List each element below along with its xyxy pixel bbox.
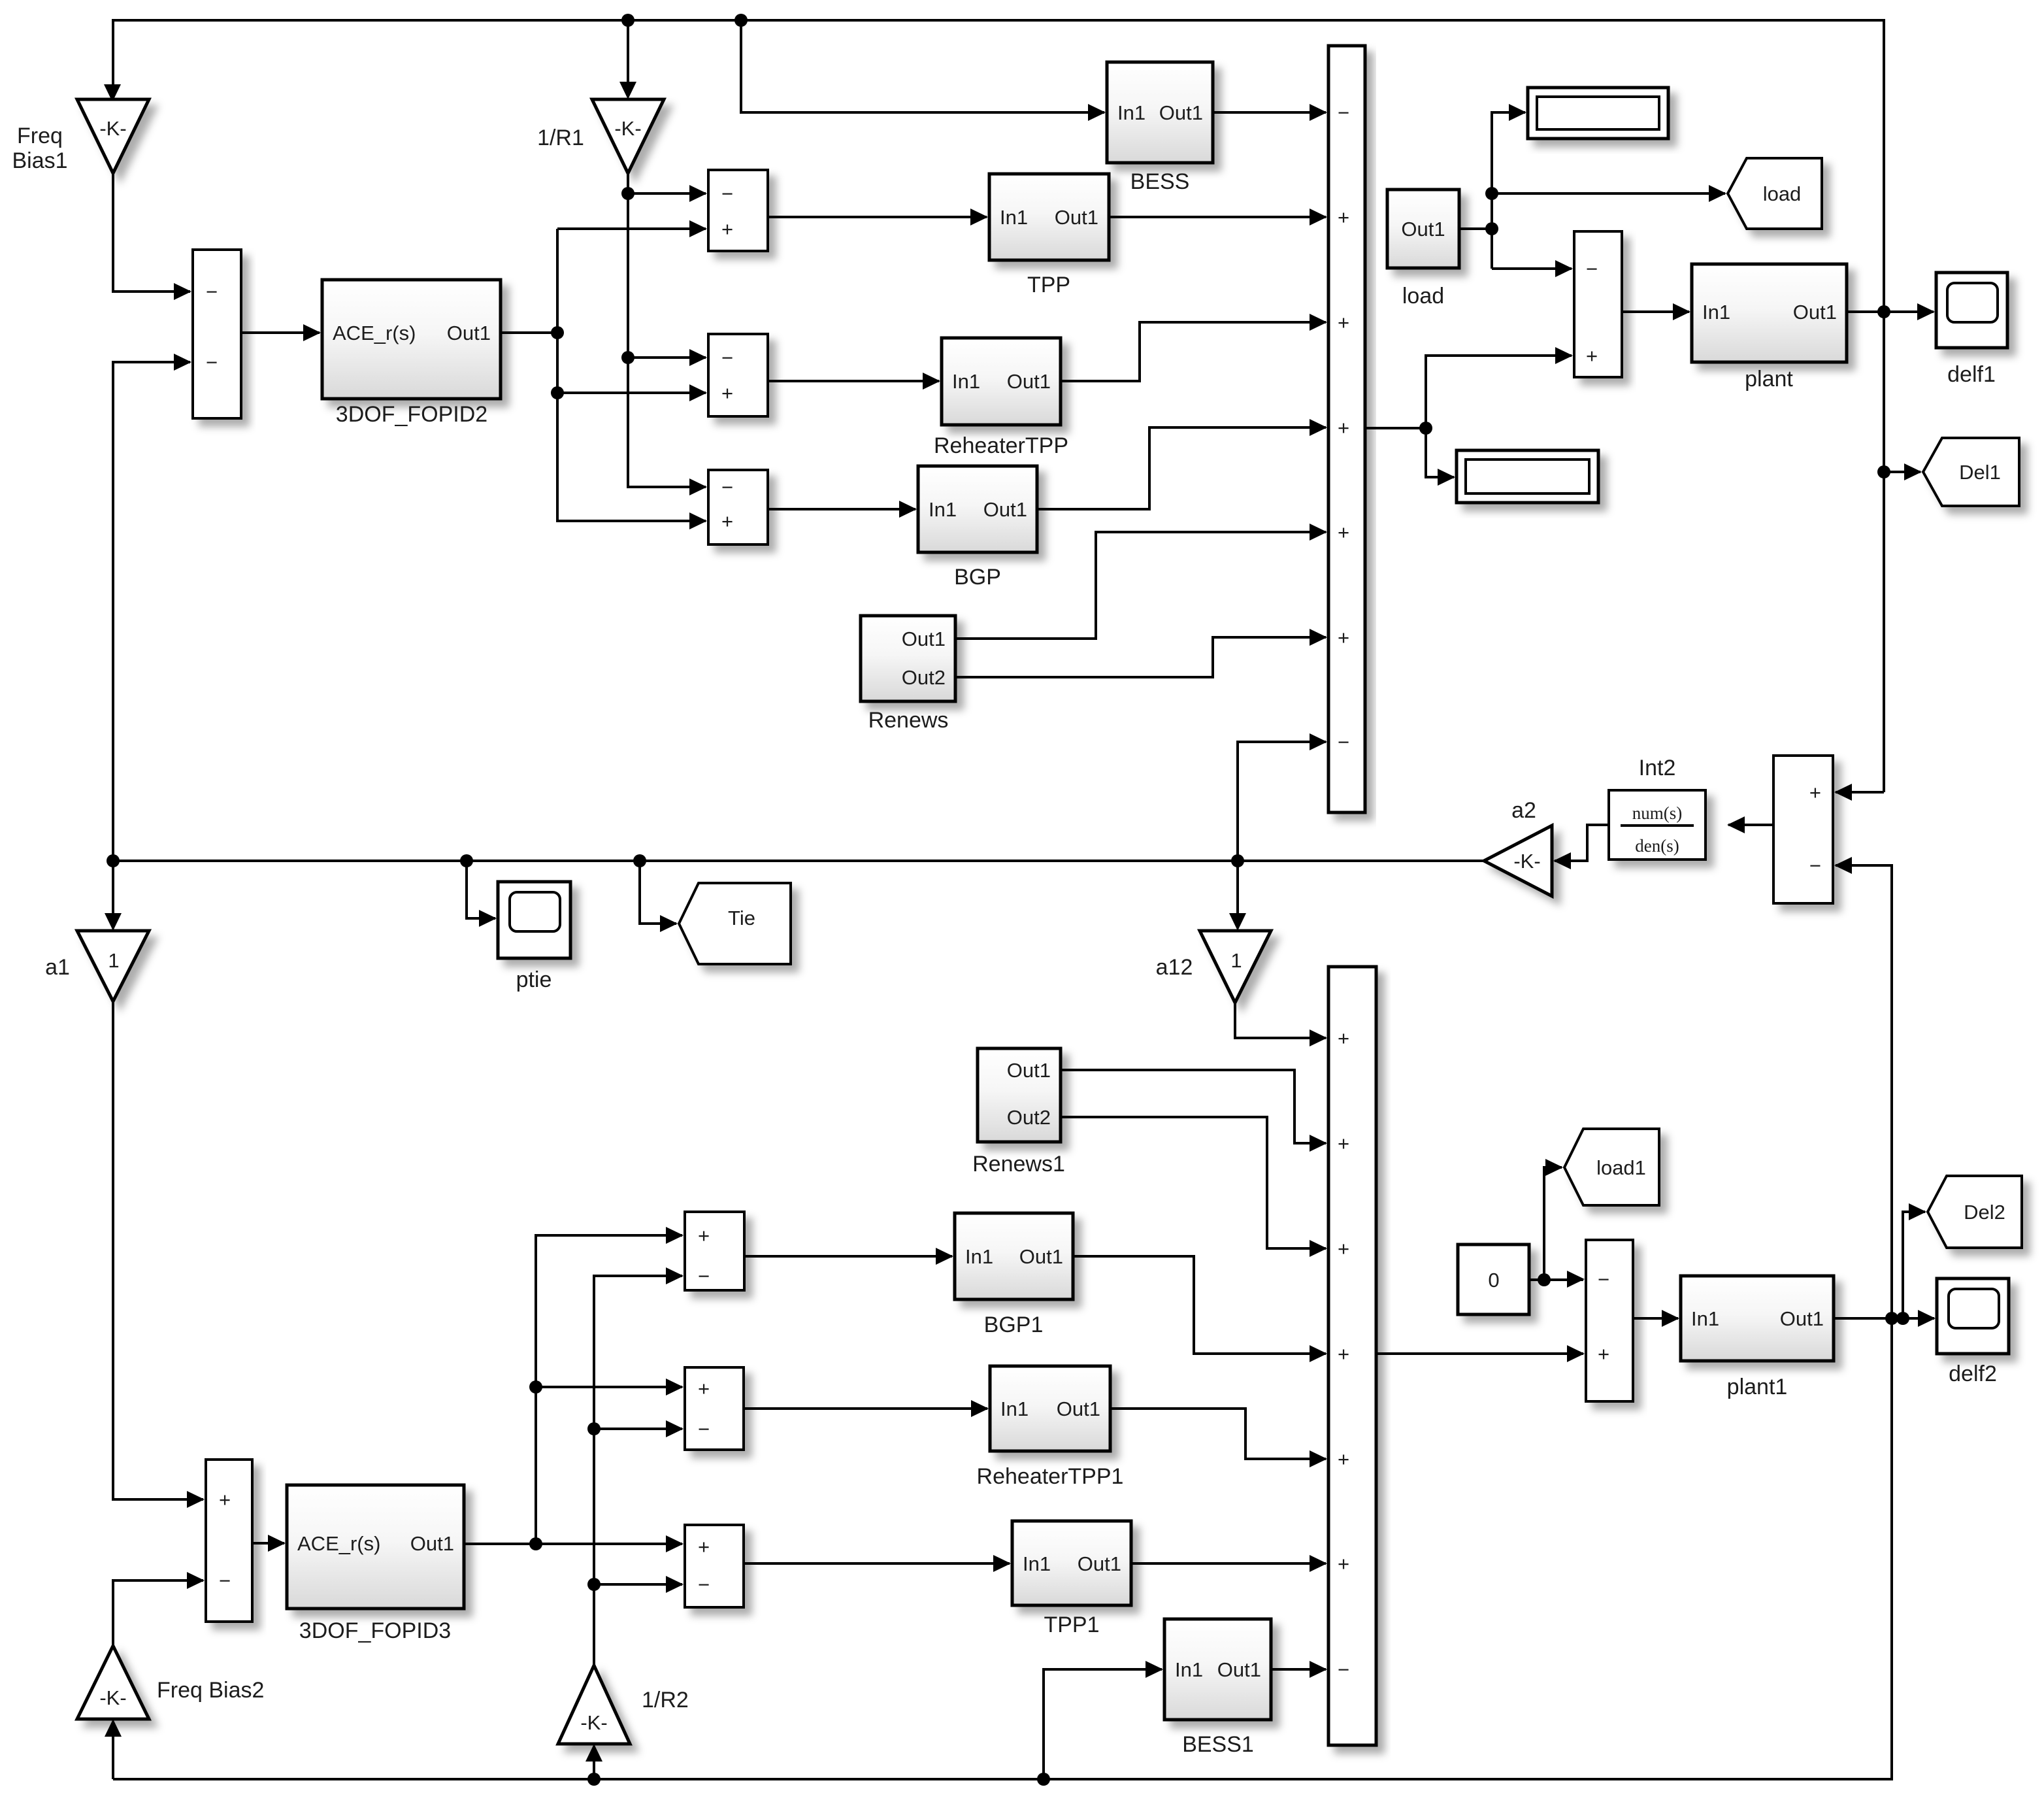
- svg-text:In1: In1: [929, 498, 957, 521]
- svg-text:plant1: plant1: [1727, 1375, 1788, 1399]
- svg-text:ACE_r(s): ACE_r(s): [333, 322, 416, 344]
- svg-text:In1: In1: [1117, 101, 1146, 124]
- svg-text:3DOF_FOPID2: 3DOF_FOPID2: [336, 402, 487, 427]
- svg-text:+: +: [1338, 1448, 1349, 1471]
- svg-text:In1: In1: [1175, 1658, 1203, 1681]
- wire mux M1 output: [1365, 347, 1573, 486]
- svg-text:Out1: Out1: [1007, 1059, 1051, 1082]
- goto tag Del2: [1928, 1176, 2022, 1248]
- svg-text:1: 1: [1230, 949, 1242, 972]
- source Renews1: [972, 1048, 1065, 1177]
- gain Freq Bias1: [12, 84, 149, 173]
- sum S3 (ReheaterTPP sum): [708, 334, 768, 416]
- gain a12: [1156, 931, 1271, 1003]
- svg-text:Out1: Out1: [1780, 1307, 1824, 1330]
- wire sum S2 to TPP: [768, 209, 988, 225]
- svg-text:+: +: [698, 1535, 710, 1558]
- svg-text:load: load: [1763, 182, 1802, 205]
- svg-text:Out2: Out2: [902, 666, 946, 689]
- wire sum S1 to 3DOF_FOPID2: [241, 324, 321, 341]
- svg-text:num(s): num(s): [1632, 803, 1683, 823]
- wire plant Out1 to delf1: [1847, 303, 1935, 320]
- wire sum S8 to BGP1: [744, 1248, 953, 1265]
- sum S10 (TPP1 sum): [685, 1525, 744, 1607]
- svg-text:BGP: BGP: [954, 565, 1001, 590]
- svg-text:ReheaterTPP: ReheaterTPP: [934, 433, 1068, 458]
- svg-text:−: −: [1338, 731, 1349, 754]
- sum S11 (plant1 sum): [1586, 1240, 1633, 1401]
- display D2 (area1 lower): [1457, 450, 1598, 503]
- svg-text:−: −: [206, 351, 218, 374]
- wire sum S7 to 3DOF_FOPID3: [252, 1535, 286, 1552]
- subsystem BESS: [1107, 62, 1213, 194]
- wire sum S11 to plant1: [1633, 1310, 1679, 1327]
- transfer function Int2: [1609, 756, 1706, 860]
- wire BESS1 to mux: [1271, 1661, 1327, 1678]
- svg-text:load1: load1: [1596, 1156, 1646, 1179]
- svg-text:ptie: ptie: [516, 967, 552, 992]
- svg-text:In1: In1: [952, 370, 980, 393]
- wire Renews Out2 to mux: [955, 629, 1327, 677]
- svg-text:−: −: [1598, 1268, 1609, 1291]
- svg-text:load: load: [1402, 284, 1444, 309]
- subsystem plant1: [1681, 1276, 1834, 1399]
- svg-text:−: −: [206, 280, 218, 303]
- svg-text:−: −: [698, 1265, 710, 1288]
- wire constant 0 rail: [1529, 1159, 1585, 1288]
- svg-text:In1: In1: [1691, 1307, 1719, 1330]
- wire tie to gain a1: [105, 861, 122, 931]
- svg-text:In1: In1: [965, 1245, 993, 1268]
- svg-text:+: +: [1338, 1237, 1349, 1260]
- subsystem BGP: [918, 466, 1037, 590]
- wire to goto Del2: [1903, 1203, 1926, 1318]
- goto tag load1: [1564, 1129, 1659, 1205]
- svg-text:+: +: [698, 1377, 710, 1400]
- svg-text:1/R1: 1/R1: [537, 125, 584, 150]
- wire area1 frequency feedback top: [113, 14, 1884, 792]
- svg-text:1/R2: 1/R2: [642, 1688, 689, 1712]
- subsystem 3DOF_FOPID2: [322, 280, 501, 427]
- wire load out rail: [1459, 104, 1726, 277]
- svg-text:-K-: -K-: [1513, 850, 1540, 873]
- svg-text:a12: a12: [1156, 955, 1193, 980]
- scope delf2: [1937, 1278, 2009, 1386]
- wire 3DOF_FOPID2 output rail: [501, 220, 707, 529]
- source load (area1): [1387, 190, 1459, 309]
- svg-text:Out2: Out2: [1007, 1106, 1051, 1129]
- goto tag Tie: [679, 883, 791, 964]
- wire bottom to BESS1: [1044, 1661, 1163, 1779]
- svg-text:−: −: [721, 476, 733, 499]
- sum S6 (Int2 sum): [1773, 756, 1833, 903]
- sum S1 (ACE1 sum): [193, 250, 241, 418]
- svg-text:Out1: Out1: [1401, 218, 1445, 241]
- svg-text:ACE_r(s): ACE_r(s): [297, 1532, 380, 1555]
- subsystem ReheaterTPP1: [977, 1366, 1124, 1489]
- svg-text:TPP1: TPP1: [1044, 1612, 1099, 1637]
- svg-text:0: 0: [1488, 1269, 1499, 1292]
- svg-text:+: +: [1338, 1552, 1349, 1575]
- wire 1/R1 output rail: [621, 173, 707, 495]
- svg-text:+: +: [698, 1224, 710, 1247]
- svg-text:−: −: [721, 182, 733, 205]
- svg-text:+: +: [721, 382, 733, 405]
- sum S5 (plant sum): [1574, 231, 1622, 377]
- svg-text:+: +: [1338, 206, 1349, 229]
- source Renews: [861, 616, 955, 733]
- goto tag Del1: [1923, 438, 2019, 506]
- wire tie line: [107, 854, 1484, 867]
- gain a1: [45, 931, 149, 1001]
- svg-text:1: 1: [108, 949, 119, 972]
- svg-text:−: −: [219, 1569, 231, 1592]
- svg-text:−: −: [1338, 1658, 1349, 1681]
- wire sum S10 to TPP1: [744, 1555, 1011, 1572]
- gain 1/R2: [558, 1665, 689, 1744]
- svg-text:Out1: Out1: [1078, 1552, 1121, 1575]
- svg-text:+: +: [1338, 1027, 1349, 1050]
- wire Renews Out1 to mux: [955, 524, 1327, 639]
- svg-text:In1: In1: [1023, 1552, 1051, 1575]
- gain 1/R1: [537, 99, 664, 173]
- wire Int2 to gain a2: [1553, 825, 1609, 869]
- svg-text:TPP: TPP: [1027, 273, 1070, 297]
- wire Int2 sum to Int2: [1727, 816, 1773, 833]
- sum S4 (BGP sum): [708, 470, 768, 544]
- svg-text:In1: In1: [1000, 1397, 1029, 1420]
- wire bottom to Freq Bias2: [105, 1719, 122, 1779]
- svg-text:Out1: Out1: [1057, 1397, 1100, 1420]
- wire to goto Del1: [1877, 463, 1922, 480]
- wire TPP1 to mux: [1131, 1555, 1327, 1572]
- wire a1 to sum S7 plus: [113, 1001, 205, 1508]
- subsystem TPP: [989, 174, 1109, 297]
- svg-text:+: +: [219, 1488, 231, 1511]
- svg-text:Freq Bias2: Freq Bias2: [157, 1678, 264, 1703]
- svg-text:Renews: Renews: [868, 708, 949, 733]
- wire ReheaterTPP1 to mux: [1110, 1409, 1327, 1467]
- svg-text:Del1: Del1: [1959, 461, 2001, 484]
- svg-text:Out1: Out1: [1793, 301, 1837, 324]
- goto tag load: [1728, 158, 1822, 229]
- svg-text:In1: In1: [1702, 301, 1730, 324]
- wire tie-line to sum input 2: [113, 354, 191, 858]
- wire Renews1 Out2 to mux: [1061, 1117, 1327, 1257]
- svg-text:Bias1: Bias1: [12, 148, 67, 173]
- wire area2 rail to Int2 sum minus: [1834, 857, 1892, 1318]
- svg-text:BESS: BESS: [1130, 169, 1190, 194]
- wire plant1 Out1 to delf2: [1834, 1310, 1936, 1327]
- wire tie to gain a12: [1229, 861, 1246, 931]
- sum S8 (BGP1 sum): [685, 1212, 744, 1290]
- subsystem TPP1: [1012, 1521, 1131, 1637]
- svg-text:+: +: [721, 218, 733, 241]
- svg-text:+: +: [1338, 311, 1349, 334]
- wire 1/R2 output rail: [587, 1267, 684, 1665]
- svg-text:-K-: -K-: [614, 117, 641, 140]
- svg-text:−: −: [698, 1573, 710, 1596]
- subsystem plant: [1692, 264, 1847, 392]
- svg-text:Out1: Out1: [447, 322, 491, 344]
- svg-text:+: +: [1338, 416, 1349, 439]
- display D1 (area1 upper): [1528, 88, 1668, 139]
- svg-text:Freq: Freq: [17, 124, 63, 148]
- wire mux M2 output to plant1 sum: [1376, 1345, 1585, 1362]
- svg-text:−: −: [1586, 258, 1598, 280]
- svg-text:den(s): den(s): [1635, 836, 1679, 856]
- svg-text:BESS1: BESS1: [1182, 1732, 1254, 1757]
- wire top to gain 1/R1: [619, 20, 636, 99]
- svg-text:Out1: Out1: [1019, 1245, 1063, 1268]
- svg-text:+: +: [721, 510, 733, 533]
- svg-text:ReheaterTPP1: ReheaterTPP1: [977, 1464, 1124, 1489]
- svg-text:delf1: delf1: [1947, 362, 1996, 387]
- svg-text:+: +: [1338, 521, 1349, 544]
- subsystem BESS1: [1164, 1619, 1271, 1757]
- svg-text:+: +: [1338, 626, 1349, 649]
- scope ptie: [498, 882, 570, 992]
- sum S2 (TPP sum): [708, 170, 768, 251]
- svg-text:Out1: Out1: [1217, 1658, 1261, 1681]
- wire Freq Bias1 to sum: [113, 173, 191, 300]
- wire BESS to mux: [1213, 104, 1327, 121]
- svg-text:BGP1: BGP1: [984, 1312, 1044, 1337]
- wire sum S9 to ReheaterTPP1: [744, 1400, 989, 1417]
- svg-text:−: −: [1338, 101, 1349, 124]
- subsystem BGP1: [955, 1213, 1073, 1337]
- svg-text:+: +: [1598, 1343, 1609, 1365]
- wire tie-line to mux minus: [1238, 733, 1327, 858]
- gain Freq Bias2: [77, 1646, 264, 1719]
- subsystem 3DOF_FOPID3: [287, 1485, 464, 1643]
- svg-text:+: +: [1338, 1132, 1349, 1155]
- svg-text:Out1: Out1: [902, 627, 946, 650]
- wire bottom to 1/R2: [585, 1744, 602, 1779]
- svg-text:a1: a1: [45, 955, 70, 980]
- svg-text:−: −: [721, 346, 733, 369]
- wire BGP to mux: [1037, 419, 1327, 509]
- svg-text:Renews1: Renews1: [972, 1152, 1065, 1177]
- wire TPP to mux: [1109, 209, 1327, 225]
- svg-text:delf2: delf2: [1949, 1361, 1997, 1386]
- wire tie to scope ptie: [467, 861, 497, 927]
- wire Renews1 Out1 to mux: [1061, 1070, 1327, 1152]
- svg-text:+: +: [1586, 344, 1598, 367]
- svg-text:Del2: Del2: [1964, 1201, 2005, 1224]
- svg-text:Out1: Out1: [1159, 101, 1203, 124]
- svg-text:Out1: Out1: [983, 498, 1027, 521]
- sum S9 (ReheaterTPP1 sum): [685, 1367, 744, 1450]
- wire tie to goto Tie: [640, 861, 678, 932]
- svg-text:Tie: Tie: [728, 907, 755, 929]
- svg-text:Int2: Int2: [1639, 756, 1676, 780]
- subsystem ReheaterTPP: [934, 338, 1068, 458]
- wire sum S5 to plant: [1622, 303, 1690, 320]
- wire sum S4 to BGP: [768, 501, 917, 518]
- svg-text:+: +: [1338, 1343, 1349, 1365]
- wire sum S3 to ReheaterTPP: [768, 373, 940, 390]
- constant 0: [1458, 1244, 1529, 1314]
- svg-text:In1: In1: [1000, 206, 1028, 229]
- wire Freq Bias2 to sum S7 minus: [113, 1572, 205, 1646]
- svg-text:Out1: Out1: [1055, 206, 1098, 229]
- sum M2 (area2 big sum): [1328, 967, 1376, 1745]
- svg-text:-K-: -K-: [580, 1711, 607, 1734]
- svg-text:Out1: Out1: [410, 1532, 454, 1555]
- svg-text:−: −: [1809, 854, 1821, 877]
- svg-text:+: +: [1809, 781, 1821, 804]
- gain a2: [1484, 798, 1552, 896]
- wire a12 to mux M2: [1235, 1003, 1327, 1046]
- svg-text:plant: plant: [1745, 367, 1793, 392]
- scope delf1: [1936, 273, 2007, 387]
- svg-text:-K-: -K-: [99, 117, 126, 140]
- svg-text:3DOF_FOPID3: 3DOF_FOPID3: [299, 1618, 451, 1643]
- wire ReheaterTPP to mux: [1061, 314, 1327, 381]
- sum M1 (area1 big sum): [1328, 46, 1365, 812]
- wire area2 bottom feedback: [113, 1318, 1892, 1786]
- wire BGP1 to mux: [1073, 1256, 1327, 1362]
- wire 3DOF_FOPID3 output rail: [464, 1227, 684, 1552]
- svg-text:Out1: Out1: [1007, 370, 1051, 393]
- sum S7 (ACE2 sum): [206, 1460, 252, 1622]
- wire top to BESS: [741, 20, 1106, 121]
- svg-text:a2: a2: [1511, 798, 1536, 823]
- svg-text:−: −: [698, 1418, 710, 1441]
- wire area1 rail to Int2 sum plus: [1834, 784, 1884, 801]
- svg-text:-K-: -K-: [99, 1686, 126, 1709]
